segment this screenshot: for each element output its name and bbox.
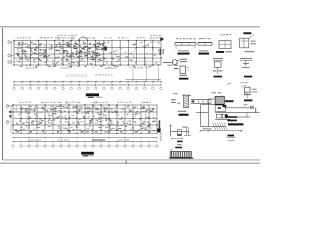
plan2 bay labels below — [16, 131, 150, 132]
detail T11 wall with slab — [171, 95, 211, 107]
detail T13 hatched lintel — [169, 144, 193, 158]
plan2 left axis circles — [6, 105, 13, 133]
detail T8 section — [240, 59, 252, 78]
detail T14 footing step — [169, 125, 191, 143]
detail T5 node with circle — [163, 59, 187, 66]
detail T6 column section — [174, 66, 189, 80]
plan2 annotations above — [19, 102, 151, 104]
detail T4 section — [240, 32, 257, 52]
page top border line — [0, 26, 260, 28]
detail T2 beam elevation — [198, 38, 212, 55]
plan2 beam text labels — [15, 106, 156, 133]
plan2 right end wall section — [157, 120, 161, 141]
plan2 dimension line 1 — [12, 132, 158, 134]
detail T9 small marks — [227, 82, 248, 87]
plan1 left axis circles — [8, 41, 14, 65]
detail T3 plan fragment — [216, 34, 232, 53]
plan1 title — [86, 93, 103, 98]
plan1 stair arc — [79, 37, 88, 42]
detail T12 foundation section — [196, 92, 259, 141]
plan1 slanted dimension text — [66, 74, 112, 77]
plan1 column grid lines — [14, 40, 161, 65]
sheet left border — [2, 28, 4, 160]
plan1 column marks — [13, 40, 161, 66]
detail T11 label — [178, 111, 189, 116]
plan2 beam lines — [13, 105, 157, 131]
plan1 beam lines — [14, 41, 161, 66]
plan2 column marks — [12, 104, 157, 131]
plan1 right end stair core — [160, 38, 164, 55]
plan1 sub beam line — [14, 44, 161, 61]
plan2 dimension line 3 — [13, 139, 157, 143]
plan2 sub beam line — [13, 107, 157, 109]
plan2 title — [81, 152, 94, 157]
plan2 dimension line 2 — [13, 137, 157, 139]
sheet bottom border — [3, 159, 260, 161]
plan1 axis bubbles — [13, 87, 163, 90]
plan1 dimension line 1 — [13, 65, 162, 83]
page bottom border line — [0, 162, 260, 164]
detail T1 beam elevation — [175, 38, 196, 54]
plan1 core dark bar — [104, 47, 107, 51]
plan1 beam text labels — [16, 41, 159, 68]
plan1 labels below — [20, 66, 151, 69]
plan2 column grid lines — [13, 104, 157, 130]
detail T10 column section — [244, 87, 257, 101]
plan1 annotations above — [17, 35, 162, 40]
plan2 axis bubbles — [12, 145, 159, 148]
page line tick — [126, 93, 178, 163]
plan1 dimension line 2 — [14, 84, 161, 86]
detail T7 section — [213, 59, 224, 78]
